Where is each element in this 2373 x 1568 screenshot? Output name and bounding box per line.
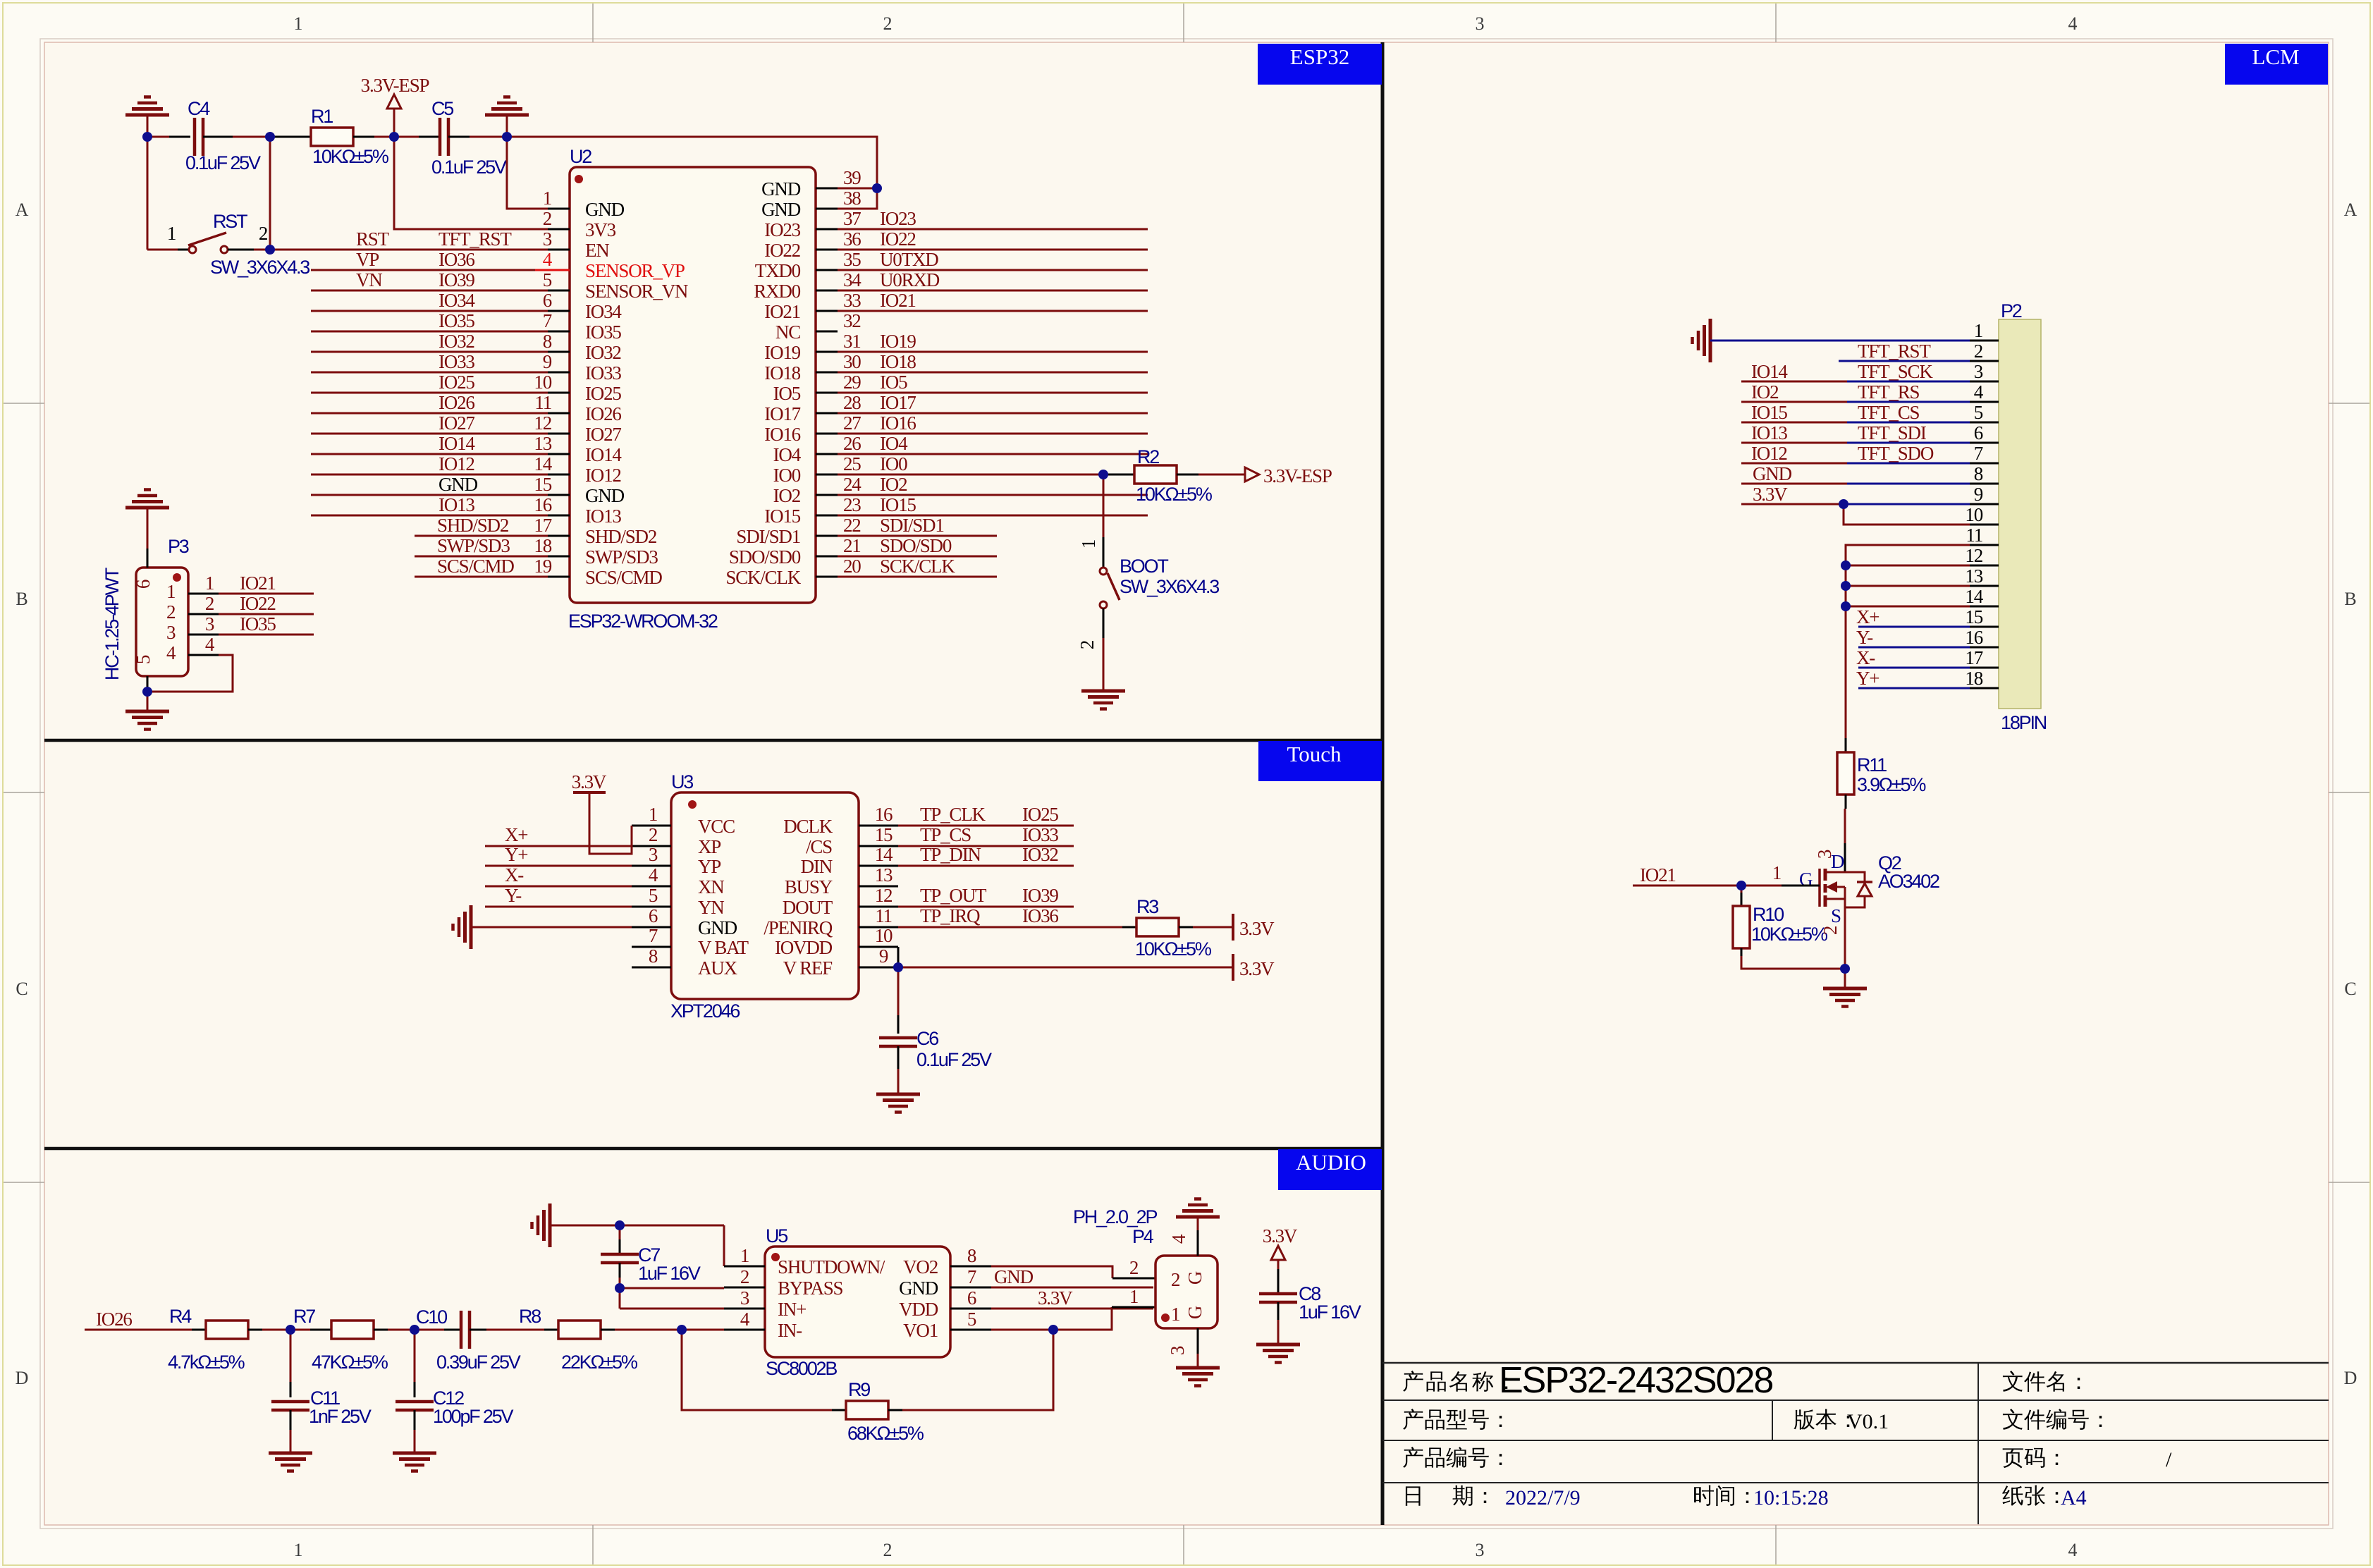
pin 9 P2 <box>1970 503 1999 506</box>
svg-text:IO35: IO35 <box>240 613 276 635</box>
node R10 junction <box>1736 881 1746 890</box>
svg-text:21: 21 <box>843 535 861 556</box>
svg-text:TFT_SCK: TFT_SCK <box>1858 361 1933 382</box>
svg-text:2: 2 <box>883 13 893 34</box>
svg-text:IO18: IO18 <box>764 362 800 384</box>
pin 17 SHD/SD2 <box>548 535 570 537</box>
svg-text:8: 8 <box>1974 463 1983 484</box>
svg-text:TFT_SDI: TFT_SDI <box>1858 422 1927 443</box>
svg-text:IO36: IO36 <box>1022 905 1058 926</box>
svg-text:2: 2 <box>883 1540 893 1560</box>
svg-text:30: 30 <box>843 351 861 372</box>
wire TP_IRQ net <box>898 926 1122 929</box>
pin 4 SENSOR_VP <box>548 269 570 271</box>
svg-text:39: 39 <box>843 167 861 188</box>
section header AUDIO <box>1278 1149 1382 1190</box>
pin 8 VO2 <box>950 1266 991 1268</box>
svg-text:1: 1 <box>166 581 175 602</box>
capacitor C10 <box>444 1329 461 1331</box>
pin 1 VCC <box>632 825 671 827</box>
svg-text:IO34: IO34 <box>439 290 475 311</box>
svg-text:6: 6 <box>133 580 154 589</box>
svg-text:SDI/SD1: SDI/SD1 <box>736 526 800 547</box>
svg-text:5: 5 <box>1974 402 1983 423</box>
wire VREF to 3.3V <box>898 967 1232 969</box>
svg-text:IO22: IO22 <box>764 240 800 261</box>
connector P4 PH_2.0_2P <box>1155 1256 1218 1328</box>
svg-text:SDO/SD0: SDO/SD0 <box>880 535 952 556</box>
node RST switch junction <box>265 245 275 255</box>
pin 2 P2 <box>1970 360 1999 362</box>
svg-text:IO15: IO15 <box>880 494 916 515</box>
svg-text:C6: C6 <box>916 1028 938 1049</box>
ground <box>1197 1217 1199 1230</box>
capacitor C8 <box>1277 1260 1280 1269</box>
resistor R3 <box>1122 926 1136 929</box>
svg-text:SW_3X6X4.3: SW_3X6X4.3 <box>1120 576 1219 597</box>
svg-text:IO0: IO0 <box>773 465 801 486</box>
title row product name <box>1403 1371 1423 1392</box>
svg-text:D: D <box>1831 851 1845 872</box>
pin 3 EN <box>548 249 570 251</box>
svg-text:1: 1 <box>543 188 551 209</box>
pin 16 IO13 <box>548 515 570 517</box>
pin 1 P2 <box>1970 340 1999 342</box>
svg-text:RST: RST <box>213 211 247 232</box>
ground <box>1709 319 1712 362</box>
wire switch pin2 to EN node <box>228 249 254 251</box>
pin 26 IO4 <box>816 453 838 455</box>
wire pin13 <box>1846 585 1970 587</box>
power port 3.3V-ESP <box>393 109 395 137</box>
wire VN net <box>311 290 548 292</box>
svg-text:SCS/CMD: SCS/CMD <box>437 556 514 577</box>
svg-text:2: 2 <box>166 601 176 623</box>
svg-text:XP: XP <box>698 836 721 857</box>
svg-text:SCS/CMD: SCS/CMD <box>585 567 662 588</box>
pin 10 P2 <box>1970 524 1999 526</box>
svg-text:10:15:28: 10:15:28 <box>1753 1486 1829 1509</box>
wire IO35 net P3 <box>188 634 219 636</box>
node 3.3V-ESP <box>389 132 399 142</box>
wire TP_CLK net <box>898 825 1074 827</box>
svg-text:AO3402: AO3402 <box>1878 871 1939 892</box>
pin 8 P2 <box>1970 483 1999 485</box>
wire IO22 net P3 <box>188 613 219 615</box>
pin 14 IO12 <box>548 474 570 476</box>
wire IO13 net <box>311 515 548 517</box>
svg-text:R4: R4 <box>169 1306 192 1327</box>
pin 27 IO16 <box>816 433 838 435</box>
svg-text:D: D <box>16 1368 29 1388</box>
wire TFT_SDI net <box>1741 442 1847 444</box>
svg-text:IO2: IO2 <box>773 485 801 506</box>
svg-text:IO25: IO25 <box>439 372 474 393</box>
pin 31 IO19 <box>816 351 838 353</box>
node pin39 tap <box>872 183 882 193</box>
wire X- net P2 <box>1858 667 1970 669</box>
svg-text:47KΩ±5%: 47KΩ±5% <box>312 1352 388 1373</box>
pin 12 P2 <box>1970 565 1999 567</box>
ground <box>897 1069 900 1094</box>
svg-text:X-: X- <box>1856 647 1875 668</box>
wire IO33 net <box>311 372 548 374</box>
svg-text:/CS: /CS <box>806 836 832 857</box>
wire GND pin6 <box>471 926 632 929</box>
resistor R4 <box>192 1329 206 1331</box>
wire IO18 net <box>838 372 1148 374</box>
wire 3.3V net U5 <box>991 1308 1153 1310</box>
ground <box>1277 1320 1280 1345</box>
svg-text:8: 8 <box>967 1245 976 1266</box>
wire IO25 net <box>311 392 548 394</box>
svg-text:IO32: IO32 <box>1022 844 1058 865</box>
pin 30 IO18 <box>816 372 838 374</box>
svg-text:5: 5 <box>543 269 552 290</box>
svg-text:IO5: IO5 <box>880 372 907 393</box>
ground <box>147 692 149 711</box>
svg-text:GND: GND <box>698 917 737 938</box>
svg-text:U0TXD: U0TXD <box>880 249 938 270</box>
wire TFT_SCK net <box>1741 381 1847 383</box>
svg-text:TFT_RST: TFT_RST <box>1858 341 1931 362</box>
pin 23 IO15 <box>816 515 838 517</box>
svg-text:A: A <box>16 200 29 220</box>
svg-text:1: 1 <box>1772 862 1781 883</box>
svg-text:33: 33 <box>843 290 861 311</box>
svg-text:10: 10 <box>1965 504 1982 525</box>
pin 18 SWP/SD3 <box>548 556 570 558</box>
svg-text:BYPASS: BYPASS <box>778 1278 843 1299</box>
connector P3 HC-1.25-4PWT <box>136 568 188 676</box>
svg-text:1: 1 <box>740 1245 749 1266</box>
svg-text:4: 4 <box>2068 13 2078 34</box>
svg-text:35: 35 <box>843 249 861 270</box>
svg-text:TFT_SDO: TFT_SDO <box>1858 443 1934 464</box>
pin 3 IN+ <box>724 1308 765 1310</box>
svg-text:/PENIRQ: /PENIRQ <box>764 917 833 938</box>
wire SDO/SD0 net <box>838 556 997 558</box>
svg-text:Y+: Y+ <box>505 844 527 865</box>
section divider vertical <box>1381 42 1385 1525</box>
wire GND pin15 <box>311 494 548 496</box>
transistor Q2 AO3402 <box>1818 869 1821 907</box>
svg-text:GND: GND <box>761 199 801 220</box>
svg-text:U2: U2 <box>570 146 591 167</box>
svg-text:3: 3 <box>1974 361 1983 382</box>
svg-text:4: 4 <box>1974 381 1984 403</box>
svg-text:TP_OUT: TP_OUT <box>920 885 987 906</box>
pin 6 IO34 <box>548 310 570 312</box>
svg-text:3: 3 <box>1476 1540 1485 1560</box>
svg-text:5: 5 <box>967 1309 976 1330</box>
resistor R9 <box>682 1330 832 1410</box>
wire IO15 net <box>838 515 1148 517</box>
svg-text:1: 1 <box>167 223 176 244</box>
svg-text:IO14: IO14 <box>585 444 622 465</box>
svg-text:14: 14 <box>534 453 552 474</box>
wire TFT_RS net <box>1741 401 1847 403</box>
node 3.3V junction <box>1839 499 1848 509</box>
svg-text:IO25: IO25 <box>585 383 621 404</box>
capacitor C11 <box>290 1330 292 1382</box>
wire R4 to R7 <box>262 1329 310 1331</box>
wire pin12 <box>1846 565 1970 567</box>
section divider Touch/AUDIO <box>44 1147 1382 1151</box>
svg-text:V0.1: V0.1 <box>1847 1410 1889 1433</box>
switch RST SW_3X6X4.3 <box>189 246 196 253</box>
pin 17 P2 <box>1970 667 1999 669</box>
svg-text:BUSY: BUSY <box>785 876 833 898</box>
wire EN node down to RST switch <box>269 137 271 250</box>
ground <box>147 508 149 527</box>
svg-text:VDD: VDD <box>899 1299 938 1320</box>
svg-text:VO1: VO1 <box>903 1320 938 1341</box>
svg-text:IO19: IO19 <box>880 331 916 352</box>
svg-text:17: 17 <box>534 515 551 536</box>
svg-text:IO27: IO27 <box>585 424 621 445</box>
svg-text:SCK/CLK: SCK/CLK <box>880 556 955 577</box>
pin 11 P2 <box>1970 544 1999 546</box>
svg-text:10KΩ±5%: 10KΩ±5% <box>1136 484 1213 505</box>
resistor R7 <box>310 1329 331 1331</box>
op-amp U3 XPT2046 body <box>671 792 859 999</box>
pin 12 IO27 <box>548 433 570 435</box>
svg-text:4: 4 <box>205 634 215 655</box>
svg-text:7: 7 <box>967 1266 976 1287</box>
svg-text:4: 4 <box>740 1309 750 1330</box>
svg-text:C4: C4 <box>188 98 210 119</box>
svg-text:IO22: IO22 <box>880 228 916 250</box>
section divider ESP32/Touch <box>44 739 1382 742</box>
capacitor C6 <box>897 967 900 1015</box>
svg-text:VP: VP <box>356 249 379 270</box>
pin 10 IO25 <box>548 392 570 394</box>
pin 36 IO22 <box>816 249 838 251</box>
svg-text:10KΩ±5%: 10KΩ±5% <box>1135 938 1212 960</box>
svg-text:3V3: 3V3 <box>585 219 616 240</box>
svg-text:P4: P4 <box>1132 1226 1154 1247</box>
svg-text:1: 1 <box>1078 540 1099 549</box>
svg-text:8: 8 <box>543 331 552 352</box>
ground <box>290 1430 292 1453</box>
wire X+ net P2 <box>1858 626 1970 628</box>
svg-text:4: 4 <box>166 642 176 663</box>
wire EN left vertical to switch <box>147 137 149 250</box>
svg-text:10: 10 <box>534 372 551 393</box>
wire Q2 source down <box>1844 899 1846 969</box>
svg-text:IO2: IO2 <box>1751 381 1779 403</box>
wire P2 pin1 ground <box>1710 340 1970 342</box>
pin 4 XN <box>632 886 671 888</box>
svg-text:1: 1 <box>649 804 657 825</box>
wire X+ net <box>485 845 632 847</box>
section header Touch <box>1258 741 1382 781</box>
wire IO4 net <box>838 453 1148 455</box>
pin 2 BYPASS <box>724 1287 765 1289</box>
svg-text:AUDIO: AUDIO <box>1296 1150 1366 1175</box>
svg-text:13: 13 <box>1965 565 1982 587</box>
wire IO14 net <box>311 453 548 455</box>
svg-text:25: 25 <box>843 453 861 474</box>
svg-text:IO18: IO18 <box>880 351 916 372</box>
svg-text:YN: YN <box>698 897 724 918</box>
wire 3.3V-ESP to C5 <box>394 136 419 138</box>
wire GND net U5 <box>991 1287 1153 1289</box>
wire IO23 net <box>838 228 1148 231</box>
svg-text:VN: VN <box>356 269 382 290</box>
svg-text:IO32: IO32 <box>585 342 621 363</box>
svg-text:3.3V: 3.3V <box>572 771 607 792</box>
wire IO17 net <box>838 412 1148 415</box>
svg-text:3: 3 <box>166 622 176 643</box>
wire TP_OUT net <box>898 906 1074 908</box>
svg-text:HC-1.25-4PWT: HC-1.25-4PWT <box>102 568 123 680</box>
svg-text:12: 12 <box>875 885 893 906</box>
svg-text:C: C <box>16 979 27 999</box>
svg-text:8: 8 <box>649 945 658 967</box>
wire pin39 tap <box>838 188 877 190</box>
wire SHD/SD2 net <box>415 535 548 537</box>
svg-text:19: 19 <box>534 556 551 577</box>
svg-text:S: S <box>1831 905 1841 926</box>
wire R1 to 3.3V-ESP node <box>353 136 374 138</box>
svg-text:2: 2 <box>1974 341 1983 362</box>
section header ESP32 <box>1258 44 1382 85</box>
pin 35 TXD0 <box>816 269 838 271</box>
svg-text:9: 9 <box>879 945 888 967</box>
wire IO35 net <box>311 331 548 333</box>
svg-text:2: 2 <box>1129 1257 1139 1278</box>
svg-text:V BAT: V BAT <box>698 937 749 958</box>
svg-text:IO21: IO21 <box>764 301 800 322</box>
pin 33 IO21 <box>816 310 838 312</box>
svg-text:IO13: IO13 <box>439 494 474 515</box>
svg-text:TP_CLK: TP_CLK <box>920 804 986 825</box>
wire EN-C4 left <box>147 136 169 138</box>
svg-text:TP_IRQ: TP_IRQ <box>920 905 981 926</box>
pin 5 SENSOR_VN <box>548 290 570 292</box>
svg-text:3.3V: 3.3V <box>1239 918 1275 939</box>
svg-text:IO16: IO16 <box>880 412 916 434</box>
svg-text:D: D <box>2344 1368 2357 1388</box>
svg-text:4.7kΩ±5%: 4.7kΩ±5% <box>168 1352 245 1373</box>
wire IO26 net <box>311 412 548 415</box>
wire IO19 net <box>838 351 1148 353</box>
svg-text:IO36: IO36 <box>439 249 474 270</box>
svg-text:IO14: IO14 <box>439 433 475 454</box>
svg-text:IO23: IO23 <box>880 208 916 229</box>
svg-text:IO12: IO12 <box>1751 443 1787 464</box>
wire TFT_SDO net <box>1741 463 1847 465</box>
pin 24 IO2 <box>816 494 838 496</box>
svg-text:X+: X+ <box>505 824 527 845</box>
node IO0 junction <box>1098 470 1108 479</box>
wire pin10 <box>1844 504 1970 525</box>
svg-text:U3: U3 <box>671 771 693 792</box>
svg-text:SENSOR_VP: SENSOR_VP <box>585 260 685 281</box>
pin 1 GND <box>548 208 570 210</box>
svg-text:3: 3 <box>1476 13 1485 34</box>
svg-text:IO21: IO21 <box>240 572 276 594</box>
pin 6 GND <box>632 926 671 929</box>
svg-text:TFT_RS: TFT_RS <box>1858 381 1920 403</box>
svg-text:G: G <box>1184 1306 1206 1319</box>
svg-text:1uF 16V: 1uF 16V <box>1299 1301 1361 1323</box>
svg-text:P2: P2 <box>2001 300 2022 321</box>
svg-text:RST: RST <box>356 228 390 250</box>
svg-text:3: 3 <box>740 1287 749 1309</box>
node pin14 tap <box>1841 601 1851 611</box>
pin 5 VO1 <box>950 1329 991 1331</box>
svg-text:11: 11 <box>875 905 892 926</box>
wire rail to pin1 <box>723 1225 725 1266</box>
svg-text:26: 26 <box>843 433 861 454</box>
svg-text:U0RXD: U0RXD <box>880 269 940 290</box>
title row product model <box>1403 1409 1423 1430</box>
wire IO12 net <box>311 474 548 476</box>
wire GND rail down to pin1 <box>507 137 548 209</box>
capacitor C12 <box>414 1330 416 1382</box>
svg-text:Y+: Y+ <box>1856 668 1879 689</box>
pin 4 P2 <box>1970 401 1999 403</box>
wire R2 to 3.3V-ESP <box>1177 474 1198 476</box>
svg-text:3: 3 <box>543 228 552 250</box>
svg-text:R8: R8 <box>519 1306 541 1327</box>
pin 13 IO14 <box>548 453 570 455</box>
svg-text:3.3V: 3.3V <box>1753 484 1788 505</box>
svg-text:2: 2 <box>543 208 552 229</box>
pin 9 V REF <box>859 967 898 969</box>
svg-text:IO23: IO23 <box>764 219 800 240</box>
svg-text:TFT_CS: TFT_CS <box>1858 402 1920 423</box>
pin 15 P2 <box>1970 626 1999 628</box>
svg-text:Y-: Y- <box>1856 627 1873 648</box>
svg-text:0.1uF 25V: 0.1uF 25V <box>185 152 261 173</box>
svg-text:IO39: IO39 <box>439 269 474 290</box>
node source junction <box>1840 964 1850 974</box>
svg-text:4: 4 <box>1168 1234 1189 1244</box>
wire Y- net <box>485 906 632 908</box>
pin 1 SHUTDOWN/ <box>724 1266 765 1268</box>
wire IOVDD bend <box>897 947 900 967</box>
svg-text:AUX: AUX <box>698 957 738 979</box>
svg-text:SHUTDOWN/: SHUTDOWN/ <box>778 1256 885 1278</box>
svg-text:R2: R2 <box>1137 446 1159 467</box>
svg-text:IO13: IO13 <box>1751 422 1787 443</box>
svg-text:6: 6 <box>1974 422 1983 443</box>
pin 18 P2 <box>1970 687 1999 690</box>
wire R11 to Q2 drain <box>1844 809 1846 843</box>
svg-text:PH_2.0_2P: PH_2.0_2P <box>1073 1206 1157 1227</box>
wire IO22 net <box>838 249 1148 251</box>
wire C10 to R8 <box>486 1329 544 1331</box>
pin 25 IO0 <box>816 474 838 476</box>
svg-text:XN: XN <box>698 876 724 898</box>
svg-text:11: 11 <box>534 392 551 413</box>
svg-text:16: 16 <box>534 494 551 515</box>
pin 3 to ground <box>1197 1328 1199 1354</box>
svg-text:15: 15 <box>1965 606 1982 627</box>
ground <box>506 115 508 137</box>
svg-text:SENSOR_VN: SENSOR_VN <box>585 281 688 302</box>
ground <box>1103 638 1105 691</box>
connector P2 18PIN <box>1999 319 2041 709</box>
pin 6 P2 <box>1970 442 1999 444</box>
op-amp U2 ESP32-WROOM-32 body <box>570 167 816 603</box>
wire BYPASS net <box>620 1287 724 1290</box>
svg-text:IO21: IO21 <box>880 290 916 311</box>
